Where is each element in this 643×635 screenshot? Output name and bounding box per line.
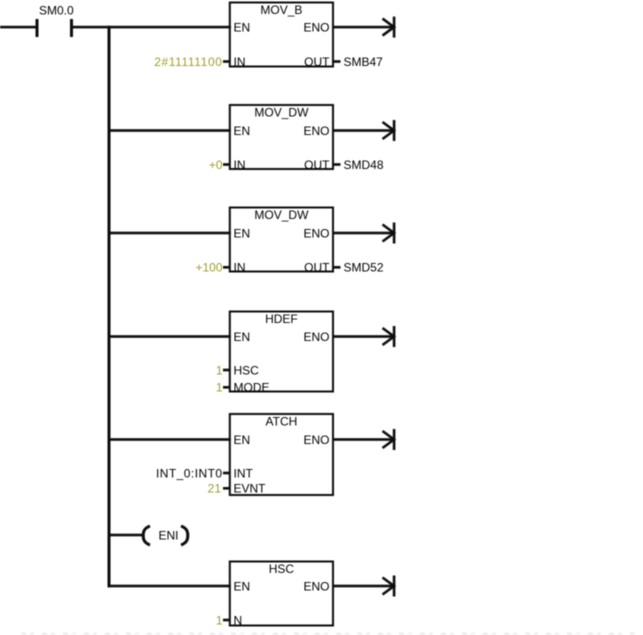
- wire: U4 ENO to arrow: [333, 335, 394, 338]
- svg-text:EVNT: EVNT: [234, 482, 267, 496]
- arrow: network 4 open arrow: [383, 326, 396, 347]
- coil ENI left paren: [143, 526, 150, 545]
- wire: stub U5 pin at y488: [223, 487, 231, 490]
- svg-text:HSC: HSC: [269, 562, 295, 576]
- svg-text:1: 1: [216, 381, 223, 395]
- contact SM0.0 right bar: [70, 19, 73, 37]
- arrow: network 1 open arrow: [383, 17, 396, 38]
- svg-text:EN: EN: [234, 21, 251, 35]
- arrow: network 5 open arrow: [383, 429, 396, 450]
- function block U5 ATCH: [230, 414, 333, 495]
- svg-text:21: 21: [208, 482, 222, 496]
- svg-text:2#11111100: 2#11111100: [154, 55, 222, 69]
- wire: branch to block 2: [108, 129, 231, 132]
- wire: stub U3 OUT: [334, 266, 341, 269]
- wire: stub U4 pin at y370: [223, 369, 231, 372]
- faint cut-off row artifact: [18, 633, 638, 635]
- svg-text:SM0.0: SM0.0: [39, 4, 74, 18]
- svg-text:IN: IN: [234, 261, 246, 275]
- svg-text:MOV_B: MOV_B: [260, 3, 302, 17]
- svg-text:OUT: OUT: [304, 55, 330, 69]
- svg-text:OUT: OUT: [304, 158, 330, 172]
- svg-text:1: 1: [216, 363, 223, 377]
- wire: left rail to contact: [0, 26, 36, 29]
- wire: stub U4 pin at y387: [223, 386, 231, 389]
- svg-text:HSC: HSC: [234, 363, 260, 377]
- svg-text:SMD52: SMD52: [344, 261, 384, 275]
- function block U2 MOV_DW: [230, 105, 333, 169]
- svg-text:N: N: [234, 613, 243, 627]
- svg-text:INT_0:INT0: INT_0:INT0: [156, 466, 223, 480]
- svg-text:ATCH: ATCH: [266, 415, 298, 429]
- svg-text:SMB47: SMB47: [344, 55, 384, 69]
- svg-text:IN: IN: [234, 158, 246, 172]
- function block U1 MOV_B: [230, 3, 333, 67]
- wire: branch to block 3: [108, 232, 231, 235]
- function block U4 HDEF: [230, 312, 333, 392]
- wire: stub U6 pin at y620: [223, 619, 231, 622]
- svg-text:ENO: ENO: [303, 433, 329, 447]
- arrow: network 3 open arrow: [383, 223, 396, 244]
- function block U3 MOV_DW: [230, 208, 333, 272]
- wire: U5 ENO to arrow: [333, 438, 394, 441]
- svg-text:+100: +100: [195, 261, 222, 275]
- svg-text:EN: EN: [234, 330, 251, 344]
- wire: stub U3 pin at y267: [223, 266, 231, 269]
- function block U6 HSC: [230, 562, 333, 626]
- svg-text:OUT: OUT: [304, 261, 330, 275]
- svg-text:ENO: ENO: [303, 579, 329, 593]
- svg-text:IN: IN: [234, 55, 246, 69]
- wire: stub U2 OUT: [334, 163, 341, 166]
- wire: rail from contact to U1 EN: [72, 26, 231, 29]
- svg-text:INT: INT: [234, 466, 254, 480]
- svg-text:MOV_DW: MOV_DW: [254, 208, 309, 222]
- svg-text:EN: EN: [234, 579, 251, 593]
- wire: U1 ENO to arrow: [333, 26, 394, 29]
- wire: U3 ENO to arrow: [333, 232, 394, 235]
- wire: stub U1 pin at y62: [223, 60, 231, 63]
- wire: stub U1 OUT: [334, 60, 341, 63]
- coil ENI right paren: [181, 526, 188, 545]
- svg-text:+0: +0: [209, 158, 223, 172]
- wire: branch to block 5: [108, 438, 231, 441]
- svg-text:HDEF: HDEF: [265, 312, 298, 326]
- wire: branch to block 6: [108, 585, 231, 588]
- svg-text:ENI: ENI: [159, 528, 179, 542]
- contact SM0.0 left bar: [36, 19, 39, 37]
- wire: U2 ENO to arrow: [333, 129, 394, 132]
- wire: branch to ENI coil: [108, 534, 144, 537]
- arrow: network 6 open arrow: [383, 576, 396, 597]
- wire: branch to block 4: [108, 335, 231, 338]
- svg-text:ENO: ENO: [303, 330, 329, 344]
- svg-text:EN: EN: [234, 226, 251, 240]
- svg-text:ENO: ENO: [303, 226, 329, 240]
- svg-text:ENO: ENO: [303, 21, 329, 35]
- svg-text:EN: EN: [234, 433, 251, 447]
- arrow: network 2 open arrow: [383, 120, 396, 141]
- svg-text:MODE: MODE: [234, 381, 270, 395]
- wire: vertical bus: [108, 26, 111, 588]
- svg-text:MOV_DW: MOV_DW: [254, 106, 309, 120]
- wire: stub U2 pin at y164: [223, 163, 231, 166]
- svg-text:ENO: ENO: [303, 124, 329, 138]
- svg-text:SMD48: SMD48: [344, 158, 384, 172]
- svg-text:EN: EN: [234, 124, 251, 138]
- wire: U6 ENO to arrow: [333, 585, 394, 588]
- svg-text:1: 1: [216, 613, 223, 627]
- wire: stub U5 pin at y473: [223, 472, 231, 475]
